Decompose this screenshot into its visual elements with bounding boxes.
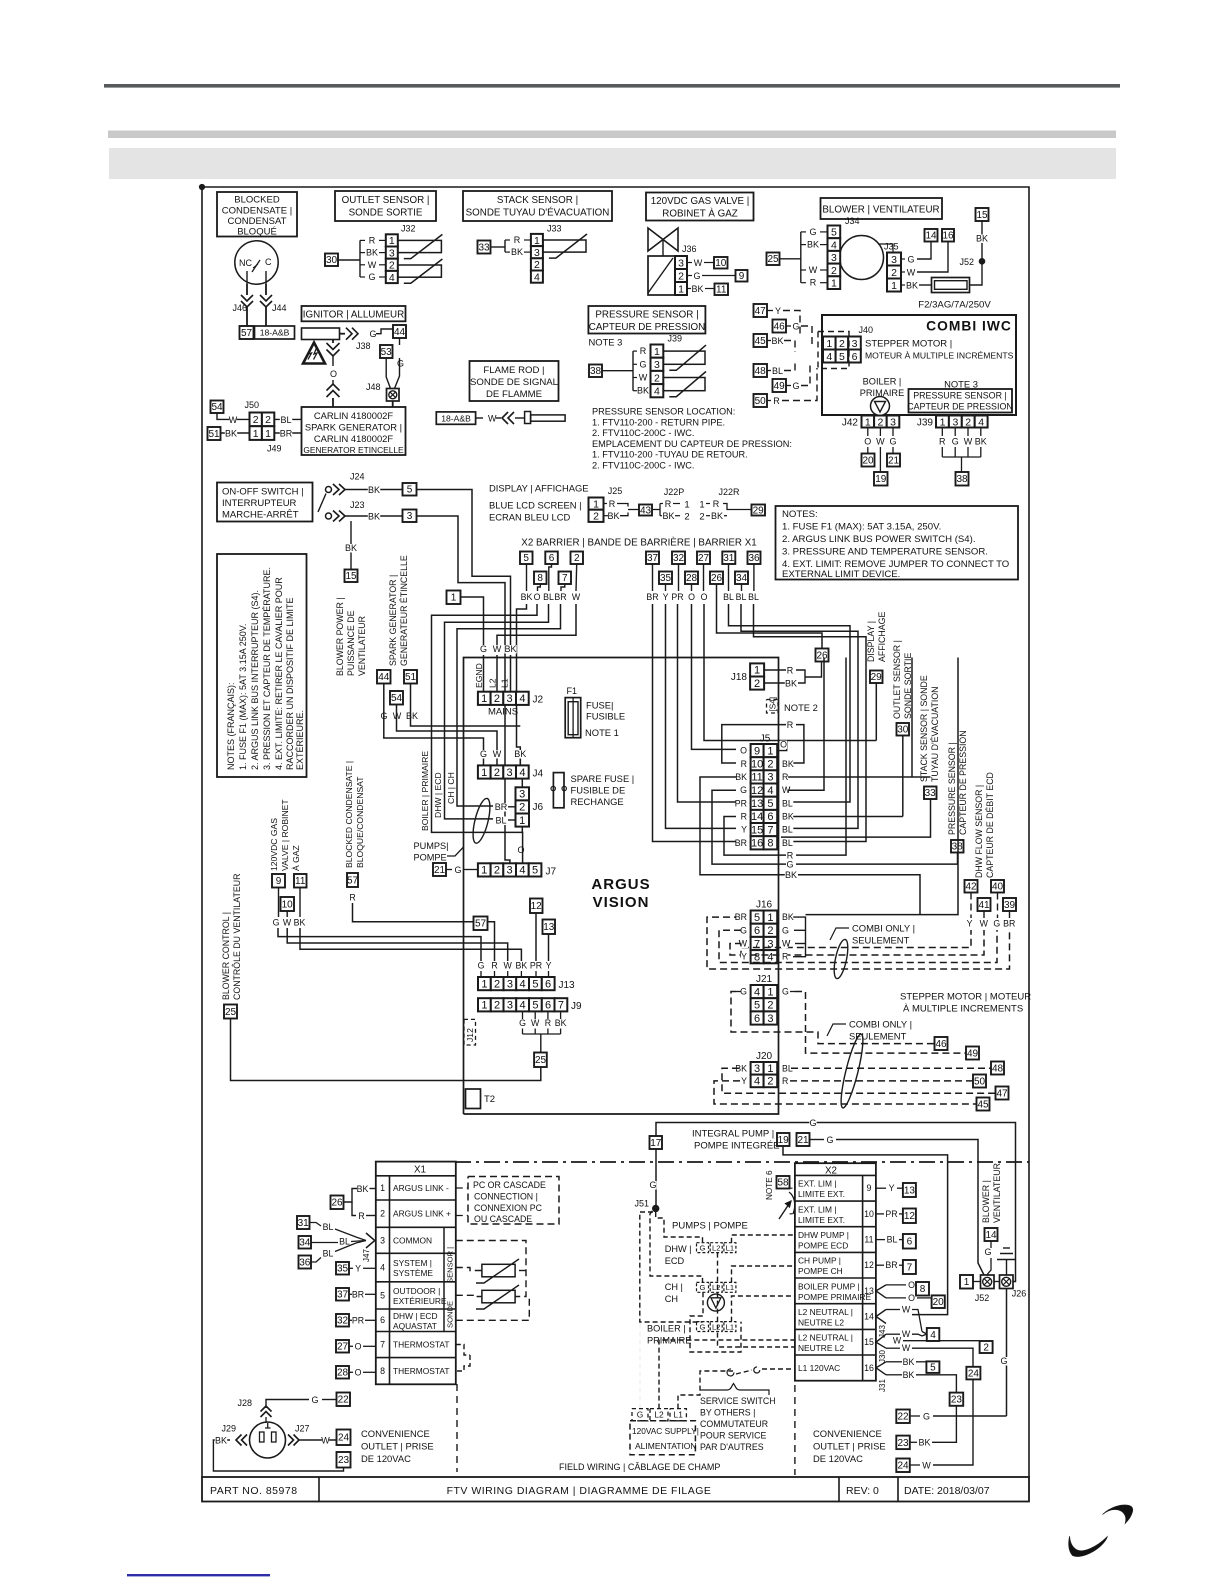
wire xyxy=(941,428,943,437)
terminal 46 xyxy=(935,1037,948,1050)
svg-text:7: 7 xyxy=(558,1000,564,1012)
svg-text:4: 4 xyxy=(754,986,760,998)
svg-text:8: 8 xyxy=(754,952,760,964)
svg-text:COMBI ONLY |: COMBI ONLY | xyxy=(849,1019,912,1030)
svg-text:10: 10 xyxy=(751,759,763,771)
svg-text:39: 39 xyxy=(1004,900,1016,911)
svg-text:CAPTEUR DE PRESSION: CAPTEUR DE PRESSION xyxy=(958,730,968,835)
svg-text:36: 36 xyxy=(299,1257,311,1268)
wire harness bracket xyxy=(800,232,802,283)
wire 23B BK xyxy=(910,1441,917,1443)
terminal 39 xyxy=(1003,898,1016,911)
connector J26 bulb xyxy=(1000,1275,1014,1289)
terminal 22X xyxy=(337,1393,351,1407)
svg-text:POMPE INTEGRÉE: POMPE INTEGRÉE xyxy=(694,1141,780,1152)
svg-text:G: G xyxy=(782,987,789,997)
terminal 7R xyxy=(903,1260,916,1274)
svg-text:POMPE ECD: POMPE ECD xyxy=(798,1241,848,1251)
terminal 34X xyxy=(299,1236,312,1249)
svg-text:EXTERNAL LIMIT DEVICE.: EXTERNAL LIMIT DEVICE. xyxy=(782,569,900,580)
wire xyxy=(345,515,403,517)
wire xyxy=(575,564,578,591)
svg-text:2. ARGUS LINK BUS INTERRUPTEU: 2. ARGUS LINK BUS INTERRUPTEUR (S4). xyxy=(250,590,260,770)
svg-text:BK: BK xyxy=(906,281,918,291)
terminal 4R xyxy=(927,1328,940,1341)
svg-text:NOTE 1: NOTE 1 xyxy=(585,727,619,738)
svg-text:16: 16 xyxy=(751,838,763,850)
svg-text:20: 20 xyxy=(862,455,874,466)
svg-text:1: 1 xyxy=(481,865,487,877)
stack column to 33 xyxy=(781,799,931,837)
svg-text:BR: BR xyxy=(735,838,747,848)
J6 BR BL labels xyxy=(495,803,507,812)
svg-text:PRIMAIRE: PRIMAIRE xyxy=(647,1336,691,1346)
svg-text:CARLIN 4180002F: CARLIN 4180002F xyxy=(314,433,393,444)
svg-text:CARLIN 4180002F: CARLIN 4180002F xyxy=(314,410,393,421)
svg-text:EXT. LIM |: EXT. LIM | xyxy=(798,1179,836,1189)
svg-text:L2: L2 xyxy=(712,1283,720,1292)
svg-text:J33: J33 xyxy=(547,224,562,234)
svg-text:BR: BR xyxy=(352,1290,364,1300)
wire xyxy=(687,262,692,264)
svg-text:FUSIBLE DE: FUSIBLE DE xyxy=(571,785,626,796)
svg-text:W: W xyxy=(782,785,791,795)
svg-text:7: 7 xyxy=(767,824,773,836)
wire xyxy=(345,489,403,491)
svg-text:W: W xyxy=(572,592,581,602)
svg-text:J30: J30 xyxy=(878,1350,887,1363)
svg-text:L2 NEUTRAL |: L2 NEUTRAL | xyxy=(798,1333,853,1343)
pc or cascade dashed box xyxy=(468,1177,559,1225)
terminal 36X xyxy=(299,1256,312,1269)
svg-text:1: 1 xyxy=(964,1277,970,1288)
wire Y barrier to J5-15 xyxy=(666,604,737,828)
svg-text:SENSOR |: SENSOR | xyxy=(446,1247,455,1283)
svg-text:31: 31 xyxy=(298,1218,310,1229)
svg-text:TUYAU D'ÉVACUATION: TUYAU D'ÉVACUATION xyxy=(930,686,940,782)
terminal 38 combi xyxy=(956,472,969,486)
svg-text:MOTEUR À MULTIPLE INCRÉMENTS: MOTEUR À MULTIPLE INCRÉMENTS xyxy=(865,351,1014,361)
svg-text:L2: L2 xyxy=(488,678,498,688)
svg-text:22: 22 xyxy=(897,1412,909,1423)
svg-text:NOTE 2: NOTE 2 xyxy=(784,702,818,713)
terminal 50 stepper xyxy=(973,1075,986,1088)
service switch brace xyxy=(700,1384,769,1396)
connector J9 xyxy=(478,998,491,1011)
svg-text:G: G xyxy=(480,644,487,654)
svg-text:PRESSURE SENSOR LOCATION:: PRESSURE SENSOR LOCATION: xyxy=(592,407,735,417)
svg-text:PRESSURE SENSOR |: PRESSURE SENSOR | xyxy=(595,310,698,321)
svg-text:1: 1 xyxy=(699,500,704,511)
svg-text:J40: J40 xyxy=(859,325,874,335)
svg-text:G: G xyxy=(700,1322,706,1331)
svg-text:28: 28 xyxy=(686,573,698,584)
svg-text:5: 5 xyxy=(930,1363,936,1374)
svg-text:SONDE TUYAU D'ÉVACUATION: SONDE TUYAU D'ÉVACUATION xyxy=(466,208,610,219)
svg-text:5: 5 xyxy=(767,798,773,810)
svg-text:BL: BL xyxy=(280,415,291,425)
svg-text:BLOWER | VENTILATEUR: BLOWER | VENTILATEUR xyxy=(822,205,939,216)
svg-text:33: 33 xyxy=(478,242,490,253)
svg-text:6: 6 xyxy=(380,1315,385,1325)
svg-text:1: 1 xyxy=(380,1183,385,1193)
connector J13 xyxy=(478,977,491,990)
wire BR barrier to J5-16 xyxy=(653,604,737,842)
svg-text:INTERRUPTEUR: INTERRUPTEUR xyxy=(222,498,297,509)
svg-text:Y: Y xyxy=(546,961,552,971)
wire row12 BR-7 xyxy=(876,1264,884,1266)
svg-text:R: R xyxy=(514,235,521,245)
svg-text:ECRAN BLEU LCD: ECRAN BLEU LCD xyxy=(489,512,571,523)
svg-text:J46: J46 xyxy=(233,303,248,313)
J5 left labels xyxy=(741,747,748,755)
svg-text:BK: BK xyxy=(771,336,783,346)
svg-text:NEUTRE L2: NEUTRE L2 xyxy=(798,1318,844,1328)
svg-text:BK: BK xyxy=(366,248,378,258)
svg-text:BLOWER |: BLOWER | xyxy=(981,1180,991,1223)
terminal 10 xyxy=(714,257,728,269)
svg-text:L2: L2 xyxy=(712,1243,720,1252)
svg-text:9: 9 xyxy=(867,1183,872,1193)
wire xyxy=(386,358,390,389)
terminal 13R xyxy=(903,1183,916,1197)
wire BL barrier to J5-5 xyxy=(729,604,851,802)
svg-text:PR: PR xyxy=(885,1209,897,1219)
svg-text:BL: BL xyxy=(323,1222,334,1232)
svg-text:BR: BR xyxy=(280,429,293,439)
svg-text:BY OTHERS |: BY OTHERS | xyxy=(700,1408,755,1418)
svg-text:CONVENIENCE: CONVENIENCE xyxy=(361,1428,430,1439)
field wiring dashed divider right xyxy=(794,1385,796,1475)
svg-text:2: 2 xyxy=(767,1000,773,1012)
terminal 8 barrier xyxy=(534,572,547,585)
svg-text:G: G xyxy=(782,925,789,935)
svg-text:SYSTEM |: SYSTEM | xyxy=(393,1258,432,1268)
J4 GWBK labels xyxy=(480,750,487,759)
J9 lower wire labels xyxy=(522,1011,524,1019)
svg-text:32: 32 xyxy=(673,553,685,564)
svg-text:J31: J31 xyxy=(878,1379,887,1392)
terminal 37 barrier xyxy=(646,552,659,565)
terminal 22B xyxy=(896,1410,910,1424)
svg-text:G: G xyxy=(478,961,485,971)
svg-text:SPARE FUSE |: SPARE FUSE | xyxy=(571,773,635,784)
svg-text:J39: J39 xyxy=(917,418,934,429)
wire harness bracket xyxy=(359,240,361,277)
stack sensor thermistor xyxy=(543,240,586,252)
svg-text:57: 57 xyxy=(241,328,253,339)
terminal 10 gas xyxy=(281,897,295,911)
svg-text:EMPLACEMENT DU CAPTEUR DE PRES: EMPLACEMENT DU CAPTEUR DE PRESSION: xyxy=(592,439,792,449)
svg-text:VENTILATEUR: VENTILATEUR xyxy=(357,616,367,676)
svg-text:BK: BK xyxy=(637,386,649,396)
outlet sensor thermistor 2 xyxy=(398,265,442,277)
svg-text:SONDE DE SIGNAL: SONDE DE SIGNAL xyxy=(470,377,559,388)
svg-text:7: 7 xyxy=(907,1262,913,1273)
svg-text:CONVENIENCE: CONVENIENCE xyxy=(813,1428,882,1439)
svg-text:DE FLAMME: DE FLAMME xyxy=(486,389,542,400)
svg-text:3: 3 xyxy=(678,257,684,269)
svg-text:L2: L2 xyxy=(712,1322,720,1331)
svg-text:3: 3 xyxy=(507,1000,513,1012)
svg-text:J22R: J22R xyxy=(718,487,740,497)
svg-text:4: 4 xyxy=(519,865,525,877)
wire BK to J4 xyxy=(517,604,527,765)
svg-text:36: 36 xyxy=(748,553,760,564)
J20 right labels xyxy=(781,1065,793,1073)
transformer T2 xyxy=(466,1089,481,1109)
svg-text:DE 120VAC: DE 120VAC xyxy=(361,1453,411,1464)
svg-text:F1: F1 xyxy=(567,686,578,696)
svg-text:BL: BL xyxy=(736,592,747,602)
terminal 1 display power xyxy=(447,591,461,605)
svg-text:2: 2 xyxy=(699,512,704,523)
svg-text:R: R xyxy=(741,812,747,822)
connector J50 xyxy=(250,413,262,427)
svg-text:SONDE: SONDE xyxy=(446,1301,455,1328)
wire BK loop xyxy=(213,1440,343,1471)
wire BL barrier to J5-8 xyxy=(754,604,867,842)
svg-text:47: 47 xyxy=(755,306,767,317)
J16 right labels xyxy=(781,913,793,921)
svg-text:1: 1 xyxy=(593,498,599,510)
terminal 14 xyxy=(925,229,938,242)
wire xyxy=(879,428,881,437)
wire row13 O-8 O-20 xyxy=(876,1285,886,1298)
svg-text:J39: J39 xyxy=(668,334,683,344)
svg-text:W: W xyxy=(980,919,989,929)
terminal 6R xyxy=(903,1234,916,1249)
spark arrow up xyxy=(327,391,340,398)
svg-text:G: G xyxy=(984,1247,991,1257)
svg-text:4: 4 xyxy=(930,1330,936,1341)
gray banner bar 1 xyxy=(108,131,1116,139)
svg-text:2: 2 xyxy=(574,553,580,564)
svg-text:BL: BL xyxy=(748,592,759,602)
svg-text:FUSE|: FUSE| xyxy=(586,700,613,711)
terminal 20 xyxy=(862,454,875,467)
svg-text:G: G xyxy=(700,1243,706,1252)
svg-text:L1: L1 xyxy=(726,1243,734,1252)
svg-text:W: W xyxy=(739,939,748,949)
wire xyxy=(548,934,550,961)
svg-text:4: 4 xyxy=(519,693,525,705)
svg-text:R: R xyxy=(358,1211,364,1221)
wire G 44 to J4 xyxy=(384,684,484,766)
wire BL to J6 xyxy=(445,604,549,819)
svg-text:W: W xyxy=(229,415,238,425)
J21 left G label xyxy=(741,988,748,996)
svg-text:INTEGRAL PUMP |: INTEGRAL PUMP | xyxy=(692,1129,774,1140)
wire BR to J6 xyxy=(457,604,561,806)
connector J34 xyxy=(828,226,841,239)
svg-text:BK: BK xyxy=(511,247,523,257)
svg-text:23: 23 xyxy=(951,1395,963,1406)
svg-text:STEPPER MOTOR | MOTEUR: STEPPER MOTOR | MOTEUR xyxy=(900,992,1031,1003)
terminal 29 sensor xyxy=(870,671,883,684)
pressure column to 38 xyxy=(957,853,959,865)
terminal 43 xyxy=(639,505,652,516)
svg-text:BR: BR xyxy=(1003,919,1015,929)
terminal 13 argus xyxy=(543,920,556,935)
J5 top R bridge xyxy=(722,725,786,763)
svg-text:BR: BR xyxy=(646,592,658,602)
svg-text:O: O xyxy=(330,369,337,379)
wire BL barrier to J5-7 xyxy=(741,604,858,828)
svg-text:POUR SERVICE: POUR SERVICE xyxy=(700,1431,766,1441)
wire xyxy=(867,428,869,437)
wire 1 to EGND xyxy=(461,597,484,648)
svg-text:PUISSANCE DE: PUISSANCE DE xyxy=(346,610,356,676)
wire row15 W to 4 2 24 xyxy=(876,1334,886,1348)
terminal 12R xyxy=(903,1209,916,1224)
terminal 15 blower power xyxy=(345,570,358,583)
spark generator box U-CARLIN xyxy=(302,407,406,455)
outlet sensor thermistor 1 xyxy=(398,240,442,252)
svg-text:BL: BL xyxy=(782,798,793,808)
wire xyxy=(604,503,608,505)
svg-text:VISION: VISION xyxy=(593,894,650,911)
wire xyxy=(767,400,771,402)
svg-text:6: 6 xyxy=(549,553,555,564)
svg-text:BL: BL xyxy=(323,1249,334,1259)
notes box xyxy=(776,506,1019,580)
svg-text:STACK SENSOR |: STACK SENSOR | xyxy=(497,195,578,206)
wire J21 right G dashed xyxy=(790,991,795,993)
svg-text:1. FTV110-200 -TUYAU DE RETOU: 1. FTV110-200 -TUYAU DE RETOUR. xyxy=(592,450,748,460)
terminal 28 barrier xyxy=(685,572,698,585)
svg-text:2: 2 xyxy=(380,1209,385,1219)
svg-text:4: 4 xyxy=(978,416,984,428)
svg-text:5: 5 xyxy=(754,1000,760,1012)
svg-text:R: R xyxy=(369,235,376,245)
svg-text:O: O xyxy=(740,746,747,756)
terminal 44 xyxy=(393,325,406,338)
svg-text:R: R xyxy=(349,893,355,903)
terminal 47 xyxy=(754,304,768,317)
connector J12 dashed xyxy=(464,1019,476,1045)
svg-text:2: 2 xyxy=(593,511,599,523)
svg-text:R: R xyxy=(713,499,720,509)
J40 dashed frame xyxy=(818,332,849,369)
svg-text:26: 26 xyxy=(711,573,723,584)
svg-text:35: 35 xyxy=(337,1264,349,1275)
svg-text:34: 34 xyxy=(736,573,748,584)
svg-text:O: O xyxy=(780,740,787,750)
S4 dashed switch xyxy=(767,700,779,714)
wire xyxy=(246,284,248,295)
svg-text:2: 2 xyxy=(831,265,837,277)
svg-text:J12: J12 xyxy=(465,1028,475,1042)
svg-text:24: 24 xyxy=(897,1461,909,1472)
connector J38 chevrons xyxy=(346,328,352,340)
svg-text:SERVICE SWITCH: SERVICE SWITCH xyxy=(700,1396,776,1406)
wire J5-14 R bracket xyxy=(724,817,786,856)
svg-text:27: 27 xyxy=(337,1342,349,1353)
svg-text:12: 12 xyxy=(904,1211,916,1222)
svg-text:DISPLAY |: DISPLAY | xyxy=(866,621,876,662)
X1 thermistor 2 xyxy=(482,1290,515,1303)
wire 26X bracket xyxy=(344,1189,358,1203)
svg-text:5: 5 xyxy=(532,978,538,990)
terminal 23B xyxy=(896,1436,910,1450)
svg-text:PC OR CASCADE: PC OR CASCADE xyxy=(473,1180,546,1190)
terminal 21 pump xyxy=(797,1133,810,1146)
terminal 38 xyxy=(589,365,602,378)
condensate switch contact xyxy=(246,271,248,284)
terminal 24X xyxy=(337,1430,351,1446)
stack sensor label box xyxy=(463,191,612,221)
svg-text:R: R xyxy=(782,772,788,782)
svg-text:51: 51 xyxy=(208,429,220,440)
svg-text:COMBI IWC: COMBI IWC xyxy=(926,319,1012,334)
wire to mains xyxy=(417,516,510,863)
svg-text:43: 43 xyxy=(640,505,652,516)
120vac supply box xyxy=(630,1421,695,1455)
svg-text:DHW | ECD: DHW | ECD xyxy=(433,772,443,818)
pressure sensor inner box xyxy=(909,389,1013,413)
svg-text:W: W xyxy=(639,373,648,383)
terminal 33 sensor xyxy=(924,787,937,800)
svg-text:EXTÉRIEURE.: EXTÉRIEURE. xyxy=(295,710,305,770)
svg-text:1: 1 xyxy=(754,665,760,677)
wire xyxy=(332,356,334,366)
svg-text:2: 2 xyxy=(534,259,540,271)
svg-text:POMPE CH: POMPE CH xyxy=(798,1266,843,1276)
svg-text:2. ARGUS LINK BUS POWER SWITC: 2. ARGUS LINK BUS POWER SWITCH (S4). xyxy=(782,534,976,545)
svg-text:OUTDOOR |: OUTDOOR | xyxy=(393,1286,440,1296)
svg-text:[S4]: [S4] xyxy=(769,697,778,712)
terminal 7 barrier xyxy=(559,572,572,585)
svg-text:J49: J49 xyxy=(267,444,282,454)
terminal 11 xyxy=(715,284,729,296)
svg-text:17: 17 xyxy=(650,1138,662,1149)
svg-text:18-A&B: 18-A&B xyxy=(260,328,290,338)
svg-text:1: 1 xyxy=(481,978,487,990)
svg-text:FLAME ROD |: FLAME ROD | xyxy=(483,365,544,376)
svg-text:W: W xyxy=(922,1461,931,1471)
terminal 27X xyxy=(336,1340,349,1353)
svg-text:J7: J7 xyxy=(546,867,557,878)
svg-text:CAPTEUR DE PRESSION: CAPTEUR DE PRESSION xyxy=(907,402,1013,412)
svg-text:29: 29 xyxy=(753,505,765,516)
terminal 49 stepper xyxy=(966,1047,979,1060)
wire 24B W xyxy=(910,1464,920,1466)
svg-text:J43: J43 xyxy=(878,1325,887,1338)
condensate switch circle xyxy=(235,241,278,284)
wire xyxy=(332,340,334,344)
svg-text:30: 30 xyxy=(897,725,909,736)
svg-text:BL: BL xyxy=(339,1237,350,1247)
svg-text:45: 45 xyxy=(755,336,767,347)
svg-text:EXT. LIM |: EXT. LIM | xyxy=(798,1204,836,1214)
svg-text:21: 21 xyxy=(888,455,900,466)
wire xyxy=(274,432,301,434)
arrow into common xyxy=(366,1233,375,1248)
svg-text:OUTLET SENSOR |: OUTLET SENSOR | xyxy=(892,640,902,719)
terminal 2 barrier xyxy=(571,552,584,565)
terminal 31X xyxy=(297,1216,310,1229)
wire J18-2 BK xyxy=(764,682,786,684)
connector J33 xyxy=(531,234,543,246)
terminal 21 pumps xyxy=(433,863,446,876)
svg-text:W: W xyxy=(902,1305,911,1315)
svg-text:O: O xyxy=(355,1368,362,1378)
field wiring dash-dot boundary xyxy=(455,1161,1029,1163)
svg-text:BL: BL xyxy=(543,592,554,602)
svg-text:19: 19 xyxy=(875,474,887,485)
svg-text:À MULTIPLE INCREMENTS: À MULTIPLE INCREMENTS xyxy=(903,1004,1023,1015)
